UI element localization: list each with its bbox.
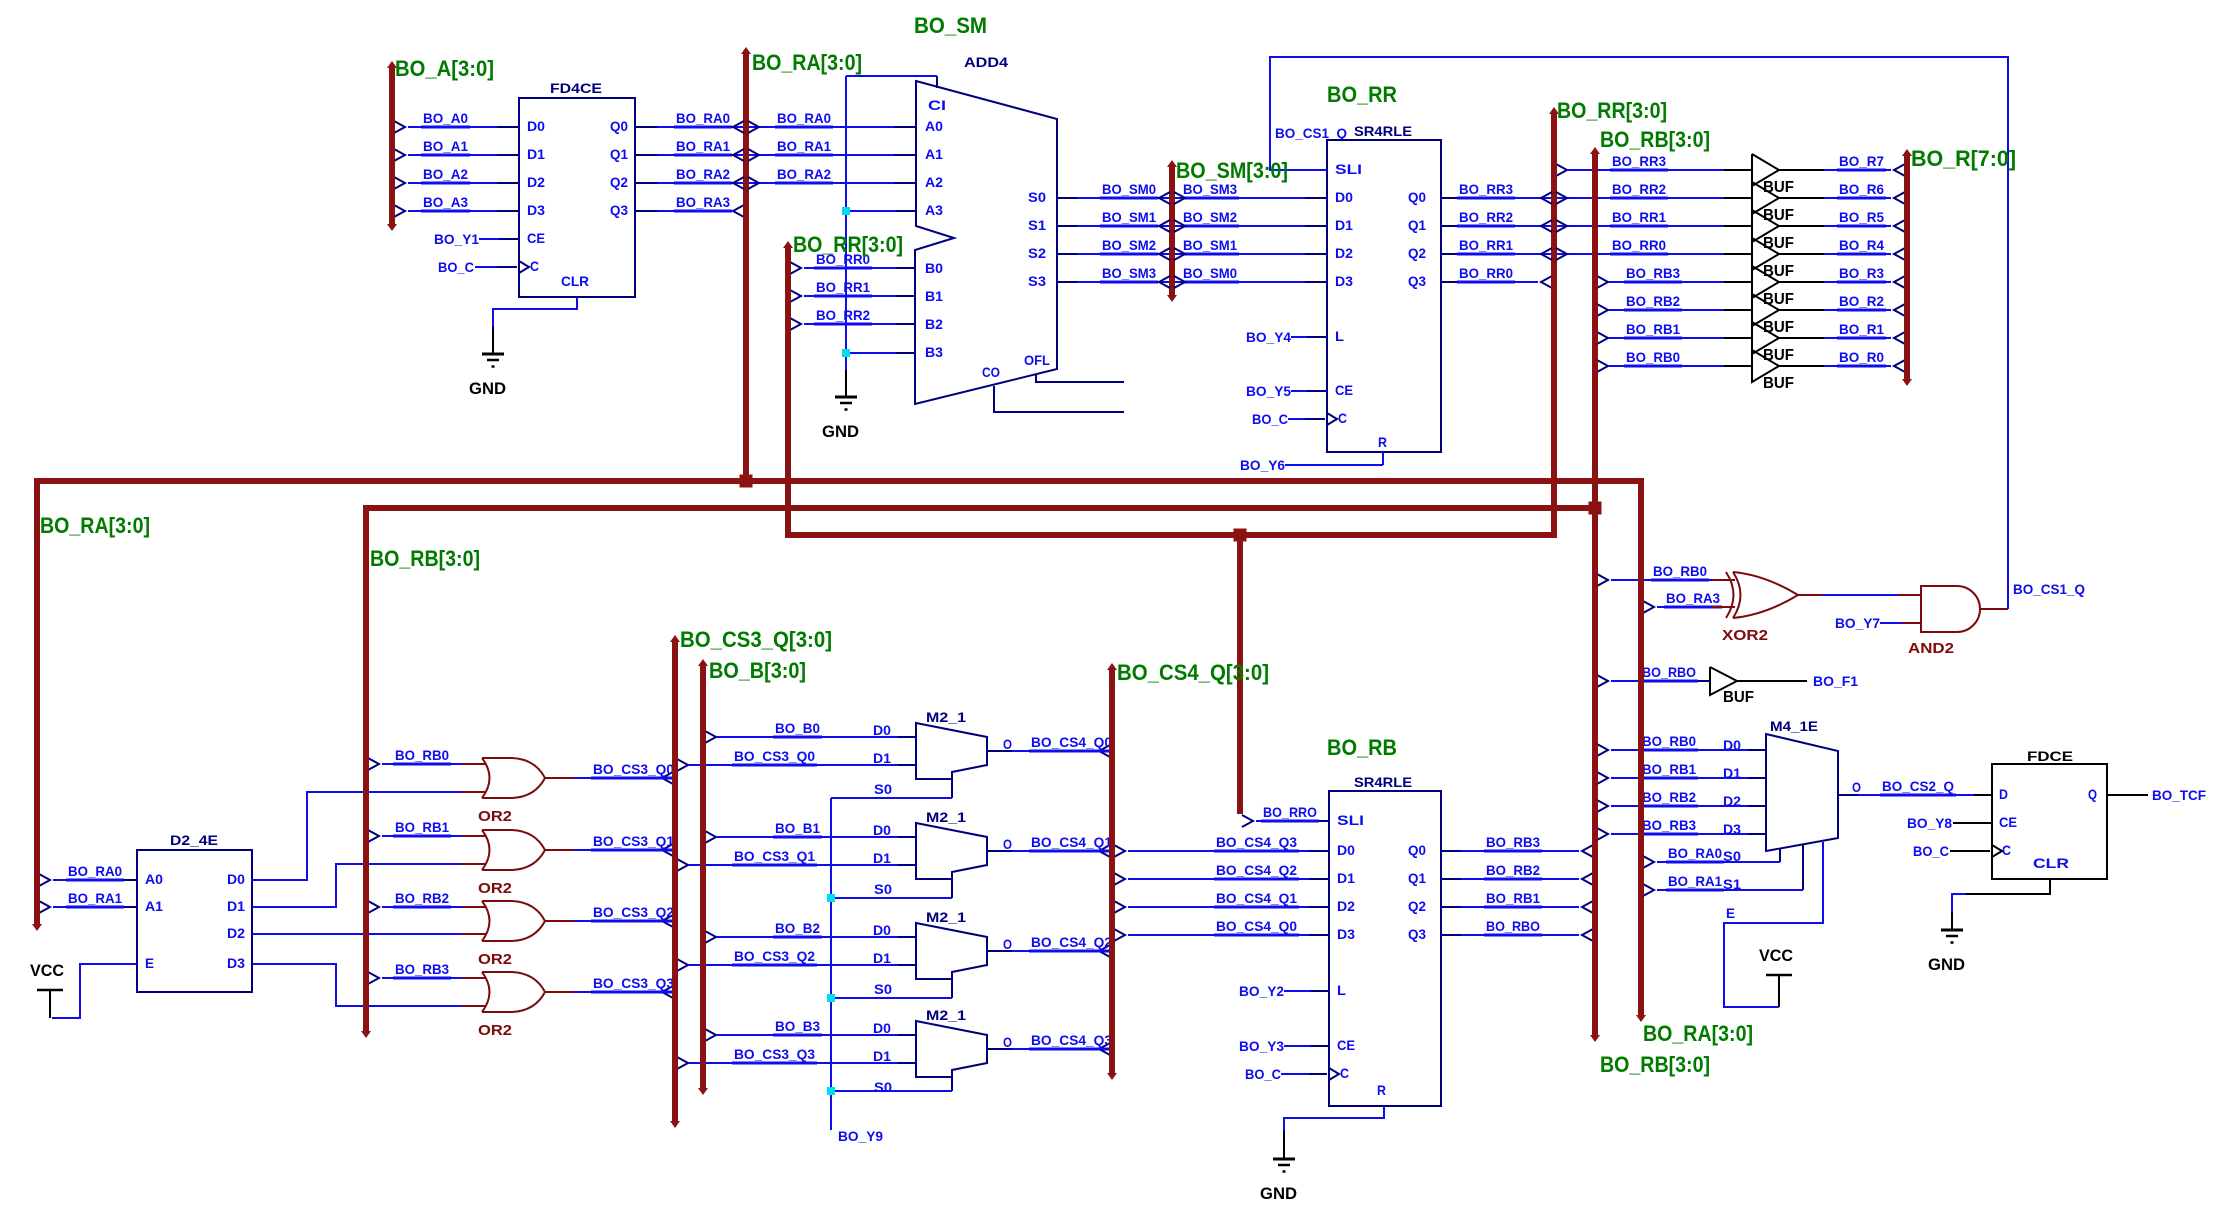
wire BO_CS3_Q0 from OR2 output into bus BO_CS3_Q [544, 761, 676, 784]
svg-text:D1: D1 [1335, 217, 1353, 233]
svg-text:ADD4: ADD4 [964, 54, 1008, 70]
wire BO_RB2 from bus BO_RB to BUF input [1597, 293, 1752, 316]
svg-text:M2_1: M2_1 [926, 809, 966, 825]
wire BO_RB2 from SR4RLE Q1 into bus BO_RB [1441, 862, 1593, 885]
svg-text:Q3: Q3 [610, 202, 628, 218]
svg-text:O: O [1003, 836, 1012, 852]
svg-text:C: C [1338, 410, 1347, 426]
svg-text:BO_A1: BO_A1 [423, 138, 468, 154]
wire BO_CS4_Q3 from M2_1 O into bus BO_CS4_Q [987, 1032, 1114, 1055]
wire BO_RA1 from bus BO_RA to M4_1E S1 [1643, 845, 1803, 896]
svg-text:M2_1: M2_1 [926, 909, 966, 925]
svg-text:OFL: OFL [1024, 352, 1050, 368]
bus BO_RA[3:0] vertical from top [741, 47, 751, 481]
svg-text:FD4CE: FD4CE [550, 80, 602, 96]
power symbol VCC at M4_1E enable [1759, 946, 1793, 1007]
svg-text:BO_A0: BO_A0 [423, 110, 468, 126]
bus BO_CS4_Q[3:0] [1107, 663, 1117, 1080]
wire BO_RBO from SR4RLE Q3 into bus BO_RB [1441, 918, 1593, 941]
svg-text:D0: D0 [227, 871, 245, 887]
wire BO_A1 from bus BO_A to FD4CE D1 [394, 138, 519, 161]
wire BO_R7 from BUF output into bus BO_R [1779, 153, 1905, 176]
svg-text:D0: D0 [873, 922, 891, 938]
svg-text:D3: D3 [1337, 926, 1355, 942]
bus label BO_RA[3:0] left [40, 513, 150, 538]
wire BO_CS2_Q from M4_1E O to FDCE D [1838, 778, 1992, 795]
svg-text:BO_F1: BO_F1 [1813, 673, 1858, 689]
wire BO_A3 from bus BO_A to FD4CE D3 [394, 194, 519, 217]
wire BO_RA0 from bus BO_RA to M4_1E S0 [1643, 845, 1780, 868]
wire BO_C to SR4RLE C [1252, 411, 1325, 427]
svg-text:BO_CS4_Q[3:0]: BO_CS4_Q[3:0] [1117, 660, 1269, 685]
svg-text:BO_RB[3:0]: BO_RB[3:0] [1600, 127, 1710, 152]
wire BO_CS3_Q3 from OR2 output into bus BO_CS3_Q [544, 975, 676, 998]
wire BO_RR3 from SR4RLE Q0 through bus BO_RR to BUF [1441, 181, 1752, 198]
bus label BO_SM[3:0] [1176, 158, 1288, 183]
wire BO_RB3 from bus BO_RB to BUF input [1597, 265, 1752, 288]
xor gate XOR2 [1712, 572, 1798, 644]
svg-text:D1: D1 [527, 146, 545, 162]
svg-text:BO_SM2: BO_SM2 [1102, 237, 1156, 253]
svg-text:BO_CS3_Q3: BO_CS3_Q3 [734, 1046, 815, 1062]
svg-text:BUF: BUF [1723, 689, 1754, 706]
wire BO_C to FDCE C [1913, 843, 1990, 859]
ground symbol GND under FDCE [1928, 930, 1965, 974]
svg-text:D3: D3 [227, 955, 245, 971]
svg-text:BO_RA0: BO_RA0 [68, 863, 122, 879]
svg-text:R: R [1378, 434, 1387, 450]
svg-text:BO_C: BO_C [438, 259, 474, 275]
wire BO_CS4_Q0 from M2_1 O into bus BO_CS4_Q [987, 734, 1114, 757]
wire BO_CS3_Q2 from bus BO_CS3_Q to M2_1 D1 [677, 948, 916, 971]
wire FDCE CLR to ground [1952, 879, 2050, 930]
wire M4_1E E to VCC [1724, 842, 1823, 1007]
svg-text:BO_R5: BO_R5 [1839, 209, 1884, 225]
svg-text:Q2: Q2 [1408, 245, 1426, 261]
svg-text:O: O [1003, 1034, 1012, 1050]
svg-text:BO_B3: BO_B3 [775, 1018, 820, 1034]
svg-text:OR2: OR2 [478, 880, 512, 897]
svg-text:OR2: OR2 [478, 1022, 512, 1039]
svg-text:A3: A3 [925, 202, 943, 218]
svg-text:BO_Y5: BO_Y5 [1246, 383, 1291, 399]
shift register U3 SR4RLE (BO_RR) [1327, 82, 1441, 452]
svg-text:BO_C: BO_C [1252, 411, 1288, 427]
svg-text:A0: A0 [145, 871, 163, 887]
svg-text:BO_CS1_Q: BO_CS1_Q [1275, 125, 1347, 141]
svg-text:BUF: BUF [1763, 291, 1794, 308]
svg-text:GND: GND [822, 422, 859, 441]
wire BO_SM3 from ADD4 S3 through bus BO_SM to SR4RLE D3 [1057, 265, 1327, 282]
svg-text:BO_Y3: BO_Y3 [1239, 1038, 1284, 1054]
svg-text:BO_CS4_Q2: BO_CS4_Q2 [1216, 862, 1297, 878]
svg-text:BO_RB0: BO_RB0 [395, 747, 449, 763]
bus label BO_RR[3:0] right [1557, 98, 1667, 123]
svg-text:BO_RB3: BO_RB3 [1486, 834, 1540, 850]
svg-text:D0: D0 [1337, 842, 1355, 858]
svg-text:BO_RB3: BO_RB3 [1642, 817, 1696, 833]
bus label BO_CS3_Q[3:0] [680, 627, 832, 652]
svg-text:BO_RB: BO_RB [1327, 735, 1397, 760]
svg-text:BO_RA1: BO_RA1 [1668, 873, 1722, 889]
junction on GND net at ADD4 A3 [842, 207, 850, 215]
bus taps of BO_SM0-3 crossing bus BO_SM [1159, 192, 1185, 288]
wire BO_RB3 from bus BO_RB to M4_1E D3 [1597, 817, 1766, 840]
svg-text:BO_A2: BO_A2 [423, 166, 468, 182]
wire BO_CS3_Q0 from bus BO_CS3_Q to M2_1 D1 [677, 748, 916, 771]
svg-text:BO_SM0: BO_SM0 [1183, 265, 1237, 281]
svg-text:BO_TCF: BO_TCF [2152, 787, 2206, 803]
svg-text:BO_RR: BO_RR [1327, 82, 1397, 107]
svg-text:SR4RLE: SR4RLE [1354, 123, 1412, 139]
svg-text:S0: S0 [874, 881, 892, 897]
svg-text:BO_B2: BO_B2 [775, 920, 820, 936]
svg-text:BO_RA1: BO_RA1 [68, 890, 122, 906]
wire BO_R1 from BUF output into bus BO_R [1779, 321, 1905, 344]
wire BO_RR1 from bus BO_RR to ADD4 B1 [790, 279, 916, 302]
wire BO_CS4_Q3 from bus BO_CS4_Q to SR4RLE D0 [1114, 834, 1329, 857]
svg-text:D2: D2 [527, 174, 545, 190]
flip-flop U5 FDCE [1992, 748, 2107, 879]
wire BO_RB1 from bus BO_RB to M4_1E D1 [1597, 761, 1766, 784]
svg-text:B1: B1 [925, 288, 943, 304]
svg-text:BO_RA2: BO_RA2 [676, 166, 730, 182]
svg-text:BUF: BUF [1763, 347, 1794, 364]
bus label BO_RR[3:0] left [793, 232, 903, 257]
svg-text:BO_RA3: BO_RA3 [1666, 590, 1720, 606]
buffer BUF8 for BO_R0 [1752, 350, 1794, 392]
junction of bus BO_RR trunk and SLI stub [1234, 529, 1247, 542]
wire BO_CS3_Q1 from bus BO_CS3_Q to M2_1 D1 [677, 848, 916, 871]
svg-text:BO_RB1: BO_RB1 [1486, 890, 1540, 906]
svg-text:D1: D1 [1723, 765, 1741, 781]
or gate OR2 number 2 [478, 830, 545, 897]
buffer BUF1 for BO_R7 [1752, 154, 1794, 196]
svg-text:Q2: Q2 [610, 174, 628, 190]
wire BO_C to SR4RLE C [1245, 1066, 1327, 1082]
svg-text:A1: A1 [925, 146, 943, 162]
svg-text:BUF: BUF [1763, 179, 1794, 196]
svg-text:OR2: OR2 [478, 951, 512, 968]
wire BO_A0 from bus BO_A to FD4CE D0 [394, 110, 519, 133]
svg-text:BO_R1: BO_R1 [1839, 321, 1884, 337]
svg-text:CE: CE [527, 230, 545, 246]
wire BO_RA1 from FD4CE Q1 through bus BO_RA to ADD4 A1 [635, 138, 916, 155]
svg-text:O: O [1852, 779, 1861, 795]
svg-text:L: L [1335, 328, 1344, 344]
bus taps of BO_RR0-3 crossing bus BO_RR [1541, 192, 1567, 260]
buffer BUF2 for BO_R6 [1752, 182, 1794, 224]
wire BO_CS1_Q from AND2 output to SR4RLE SLI [1270, 57, 2085, 609]
svg-text:BO_CS4_Q3: BO_CS4_Q3 [1031, 1032, 1112, 1048]
svg-text:D2_4E: D2_4E [170, 832, 218, 848]
wire BO_SM1 from ADD4 S1 through bus BO_SM to SR4RLE D1 [1057, 209, 1327, 226]
svg-text:C: C [1340, 1065, 1349, 1081]
svg-text:BO_RB0: BO_RB0 [1642, 733, 1696, 749]
bus label BO_CS4_Q[3:0] [1117, 660, 1269, 685]
wire BO_RR2 from SR4RLE Q1 through bus BO_RR to BUF [1441, 209, 1752, 226]
and gate AND2 [1908, 586, 1980, 657]
svg-text:Q1: Q1 [1408, 870, 1426, 886]
svg-text:BO_RR0: BO_RR0 [1612, 237, 1666, 253]
svg-text:SR4RLE: SR4RLE [1354, 774, 1412, 790]
svg-text:BO_RA0: BO_RA0 [777, 110, 831, 126]
wire BO_RA0 from FD4CE Q0 through bus BO_RA to ADD4 A0 [635, 110, 916, 127]
svg-text:D0: D0 [873, 822, 891, 838]
bus BO_B[3:0] [698, 659, 708, 1095]
svg-text:BO_RR1: BO_RR1 [1459, 237, 1513, 253]
svg-text:Q1: Q1 [1408, 217, 1426, 233]
svg-text:Q1: Q1 [610, 146, 628, 162]
svg-text:BO_R[7:0]: BO_R[7:0] [1911, 146, 2016, 171]
wire BO_RB3 from bus BO_RB to OR2 input [368, 961, 486, 984]
bus label BO_RB[3:0] bottom right [1600, 1052, 1710, 1077]
buffer BUF7 for BO_R1 [1752, 322, 1794, 364]
svg-text:BO_RA[3:0]: BO_RA[3:0] [40, 513, 150, 538]
svg-text:BUF: BUF [1763, 207, 1794, 224]
wire BO_Y2 to SR4RLE L [1239, 983, 1329, 999]
svg-text:BO_RBO: BO_RBO [1486, 918, 1540, 934]
svg-text:D0: D0 [873, 1020, 891, 1036]
svg-text:S0: S0 [1028, 189, 1046, 205]
wire from D2_4E D3 to OR2 input [252, 964, 486, 1006]
wire BO_RB0 from bus BO_RB to OR2 input [368, 747, 486, 770]
wire from D2_4E D2 to OR2 input [252, 933, 486, 935]
svg-text:BO_CS3_Q2: BO_CS3_Q2 [734, 948, 815, 964]
bus BO_SM[3:0] [1167, 160, 1177, 302]
buffer BUF6 for BO_R2 [1752, 294, 1794, 336]
svg-text:L: L [1337, 982, 1346, 998]
wire BO_RB1 from SR4RLE Q2 into bus BO_RB [1441, 890, 1593, 913]
wire D2_4E E to VCC [52, 964, 137, 1018]
svg-text:B2: B2 [925, 316, 943, 332]
svg-text:BO_RR3: BO_RR3 [1612, 153, 1666, 169]
wire BO_R4 from BUF output into bus BO_R [1779, 237, 1905, 260]
wire BO_TCF from FDCE Q [2107, 787, 2206, 803]
svg-text:D0: D0 [873, 722, 891, 738]
flip-flop U1 FD4CE [519, 80, 635, 297]
svg-text:BO_B1: BO_B1 [775, 820, 820, 836]
svg-text:AND2: AND2 [1908, 640, 1954, 657]
bus BO_RR[3:0] left vertical and horizontal trunk [783, 107, 1559, 535]
multiplexer M2_1 number 4 [873, 1007, 987, 1095]
svg-text:BO_RA3: BO_RA3 [676, 194, 730, 210]
svg-text:Q0: Q0 [1408, 189, 1426, 205]
svg-text:FDCE: FDCE [2027, 748, 2073, 764]
svg-text:S0: S0 [1723, 848, 1741, 864]
svg-text:D3: D3 [1335, 273, 1353, 289]
svg-text:D0: D0 [527, 118, 545, 134]
or gate OR2 number 4 [478, 972, 545, 1039]
svg-text:BO_A[3:0]: BO_A[3:0] [395, 56, 494, 81]
svg-text:OR2: OR2 [478, 808, 512, 825]
junction of bus BO_RA trunk and vertical [740, 475, 753, 488]
wire BO_RB2 from bus BO_RB to M4_1E D2 [1597, 789, 1766, 812]
svg-text:Q2: Q2 [1408, 898, 1426, 914]
wire BO_RR0 from bus to SR4RLE SLI [1242, 804, 1329, 827]
svg-text:BO_SM1: BO_SM1 [1183, 237, 1237, 253]
svg-text:S0: S0 [874, 1079, 892, 1095]
svg-text:BO_CS4_Q0: BO_CS4_Q0 [1031, 734, 1112, 750]
svg-text:BO_RA0: BO_RA0 [1668, 845, 1722, 861]
buffer BUF4 for BO_R4 [1752, 238, 1794, 280]
buffer BUF3 for BO_R5 [1752, 210, 1794, 252]
wire BO_CS4_Q1 from M2_1 O into bus BO_CS4_Q [987, 834, 1114, 857]
power symbol VCC at D2_4E enable [30, 961, 64, 1018]
svg-text:VCC: VCC [30, 961, 64, 980]
bus BO_RB[3:0] horizontal trunk with left vertical [361, 508, 1595, 1038]
decoder U6 D2_4E [137, 832, 252, 992]
svg-text:C: C [2002, 842, 2011, 858]
svg-text:Q0: Q0 [1408, 842, 1426, 858]
wire BO_A2 from bus BO_A to FD4CE D2 [394, 166, 519, 189]
svg-text:C: C [530, 258, 539, 274]
svg-text:BO_SM3: BO_SM3 [1102, 265, 1156, 281]
wire BO_R6 from BUF output into bus BO_R [1779, 181, 1905, 204]
wire BO_RA3 from bus BO_RA to XOR2 input [1643, 590, 1722, 613]
wire BO_RB1 from bus BO_RB to BUF input [1597, 321, 1752, 344]
svg-text:BO_SM1: BO_SM1 [1102, 209, 1156, 225]
junction on select net at third M2_1 [827, 994, 835, 1002]
multiplexer U4 M4_1E [1723, 718, 1838, 892]
bus label BO_RB[3:0] left [370, 546, 480, 571]
svg-text:BO_RA[3:0]: BO_RA[3:0] [1643, 1021, 1753, 1046]
svg-text:M4_1E: M4_1E [1770, 718, 1818, 734]
wire BO_RR1 from SR4RLE Q2 through bus BO_RR to BUF [1441, 237, 1752, 254]
wire ADD4 OFL output [1036, 375, 1124, 382]
wire BO_CS4_Q2 from bus BO_CS4_Q to SR4RLE D1 [1114, 862, 1329, 885]
svg-text:M2_1: M2_1 [926, 1007, 966, 1023]
svg-text:BO_SM: BO_SM [914, 13, 987, 38]
wire from D2_4E D0 to OR2 input [252, 792, 486, 880]
bus taps of BO_RA0-2 crossing bus BO_RA [733, 121, 759, 189]
svg-text:BUF: BUF [1763, 235, 1794, 252]
svg-text:BO_CS2_Q: BO_CS2_Q [1882, 778, 1954, 794]
svg-text:BO_RB[3:0]: BO_RB[3:0] [370, 546, 480, 571]
svg-text:BO_RB2: BO_RB2 [395, 890, 449, 906]
svg-text:BO_Y4: BO_Y4 [1246, 329, 1291, 345]
wire from D2_4E D1 to OR2 input [252, 864, 486, 907]
svg-text:D1: D1 [873, 1048, 891, 1064]
svg-text:BO_CS3_Q0: BO_CS3_Q0 [734, 748, 815, 764]
bus label BO_R[7:0] [1911, 146, 2016, 171]
wire BO_R5 from BUF output into bus BO_R [1779, 209, 1905, 232]
svg-text:GND: GND [1260, 1184, 1297, 1203]
svg-text:BO_CS4_Q1: BO_CS4_Q1 [1216, 890, 1297, 906]
bus label BO_RB[3:0] right top [1600, 127, 1710, 152]
svg-text:D0: D0 [1335, 189, 1353, 205]
wire BO_Y5 to SR4RLE CE [1246, 383, 1327, 399]
svg-text:BO_R3: BO_R3 [1839, 265, 1884, 281]
wire BO_CS4_Q1 from bus BO_CS4_Q to SR4RLE D2 [1114, 890, 1329, 913]
wire BO_Y6 to SR4RLE R [1240, 452, 1383, 473]
wire BO_RR0 from bus BO_RR to ADD4 B0 [790, 251, 916, 274]
wire BO_R0 from BUF output into bus BO_R [1779, 349, 1905, 372]
bus label BO_A[3:0] [395, 56, 494, 81]
svg-text:BO_Y1: BO_Y1 [434, 231, 479, 247]
wire SR4RLE R to ground [1284, 1106, 1384, 1159]
wire BO_CS4_Q0 from bus BO_CS4_Q to SR4RLE D3 [1114, 918, 1329, 941]
svg-text:BO_C: BO_C [1245, 1066, 1281, 1082]
wire BO_RB3 from SR4RLE Q0 into bus BO_RB [1441, 834, 1593, 857]
svg-text:BO_RR1: BO_RR1 [1612, 209, 1666, 225]
svg-text:D2: D2 [227, 925, 245, 941]
svg-text:BO_RA2: BO_RA2 [777, 166, 831, 182]
svg-text:BO_SM[3:0]: BO_SM[3:0] [1176, 158, 1288, 183]
wire BO_RB1 from bus BO_RB to OR2 input [368, 819, 486, 842]
svg-text:BO_RB3: BO_RB3 [395, 961, 449, 977]
svg-text:BO_RR0: BO_RR0 [1459, 265, 1513, 281]
junction on GND net at ADD4 B3 [842, 349, 850, 357]
svg-text:BO_RR[3:0]: BO_RR[3:0] [1557, 98, 1667, 123]
svg-text:BO_R6: BO_R6 [1839, 181, 1884, 197]
wire BO_R3 from BUF output into bus BO_R [1779, 265, 1905, 288]
wire ADD4 CO output [994, 386, 1124, 412]
bus BO_RB[3:0] right vertical [1590, 147, 1600, 1042]
wire BO_RA3 from FD4CE Q3 into bus BO_RA [635, 194, 744, 217]
svg-text:SLI: SLI [1335, 161, 1362, 177]
wire BO_RB0 from bus BO_RB to BUF input [1597, 349, 1752, 372]
svg-text:BUF: BUF [1763, 319, 1794, 336]
svg-text:BO_RA1: BO_RA1 [777, 138, 831, 154]
svg-text:BO_CS1_Q: BO_CS1_Q [2013, 581, 2085, 597]
shift register U7 SR4RLE (BO_RB) [1327, 735, 1441, 1106]
svg-text:CI: CI [928, 97, 946, 113]
svg-text:Q0: Q0 [610, 118, 628, 134]
wire BO_Y3 to SR4RLE CE [1239, 1038, 1329, 1054]
wire BO_B2 from bus BO_B to M2_1 D0 [705, 920, 916, 943]
svg-text:Q3: Q3 [1408, 926, 1426, 942]
svg-text:BO_SM2: BO_SM2 [1183, 209, 1237, 225]
junction of bus BO_RB trunk and right vertical [1589, 502, 1602, 515]
svg-text:BO_Y8: BO_Y8 [1907, 815, 1952, 831]
svg-text:BO_CS3_Q[3:0]: BO_CS3_Q[3:0] [680, 627, 832, 652]
bus BO_A[3:0] [387, 61, 397, 231]
wire BO_RR3 from bus BO_RR to BUF input [1556, 153, 1752, 176]
svg-text:Q: Q [2088, 786, 2097, 802]
wire BO_RB0 from bus BO_RB to BUF BO_F1 input [1597, 664, 1710, 687]
adder U2 ADD4 (BO_SM) [914, 13, 1057, 404]
wire BO_Y1 to FD4CE CE [434, 231, 519, 247]
svg-text:BO_RA[3:0]: BO_RA[3:0] [752, 50, 862, 75]
svg-text:BO_RA0: BO_RA0 [676, 110, 730, 126]
or gate OR2 number 3 [478, 901, 545, 968]
svg-text:BO_Y2: BO_Y2 [1239, 983, 1284, 999]
svg-text:A2: A2 [925, 174, 943, 190]
svg-text:BO_CS3_Q1: BO_CS3_Q1 [593, 833, 674, 849]
wire BO_RA1 from bus BO_RA to D2_4E A1 [39, 890, 137, 913]
wire BO_F1 BUF output [1737, 673, 1858, 689]
svg-text:BO_B[3:0]: BO_B[3:0] [709, 658, 806, 683]
svg-text:D2: D2 [1335, 245, 1353, 261]
svg-text:BO_R2: BO_R2 [1839, 293, 1884, 309]
wire BO_CS3_Q2 from OR2 output into bus BO_CS3_Q [544, 904, 676, 927]
svg-text:B3: B3 [925, 344, 943, 360]
svg-text:BO_SM0: BO_SM0 [1102, 181, 1156, 197]
svg-text:BO_Y6: BO_Y6 [1240, 457, 1285, 473]
svg-text:B0: B0 [925, 260, 943, 276]
wire BO_RR2 from bus BO_RR to ADD4 B2 [790, 307, 916, 330]
wire BO_RA0 from bus BO_RA to D2_4E A0 [39, 863, 137, 886]
svg-text:BO_R0: BO_R0 [1839, 349, 1884, 365]
wire BO_SM0 from ADD4 S0 through bus BO_SM to SR4RLE D0 [1057, 181, 1327, 198]
wire BO_RA2 from FD4CE Q2 through bus BO_RA to ADD4 A2 [635, 166, 916, 183]
svg-text:BO_CS3_Q2: BO_CS3_Q2 [593, 904, 674, 920]
wire BO_Y4 to SR4RLE L [1246, 329, 1327, 345]
svg-text:M2_1: M2_1 [926, 709, 966, 725]
svg-text:D0: D0 [1723, 737, 1741, 753]
svg-text:D2: D2 [1723, 793, 1741, 809]
